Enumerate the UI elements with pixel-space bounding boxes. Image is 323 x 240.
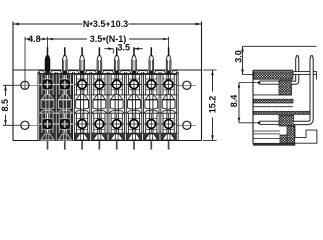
- dimension N*3.5+10.3: [13, 23, 83, 25]
- lower housing ledges: [253, 130, 280, 132]
- level 1 contact: [256, 81, 260, 84]
- pole 4 bottom pin: [98, 141, 100, 150]
- pole 7 top pin: [150, 47, 152, 56]
- dimension 4.8: [25, 38, 29, 40]
- lower hatch foot: [287, 126, 295, 143]
- pole 8 terminal details: [162, 75, 164, 95]
- pole 5 bottom pin: [116, 141, 118, 150]
- pole 5 top pin: [116, 47, 118, 56]
- pole 6 top pin: [133, 47, 135, 56]
- pole 3 top pin: [81, 47, 83, 56]
- pole 1 dark body fill: [39, 75, 56, 141]
- pole 6 bottom pin: [133, 141, 135, 150]
- dimension 15.2: [203, 69, 217, 71]
- pole 8 top pin: [168, 47, 170, 56]
- mounting hole bottom-right: [183, 121, 191, 129]
- pole 2 dark body fill: [56, 75, 73, 141]
- bottom right foot step: [294, 125, 296, 138]
- dimension 3.5: [104, 48, 113, 50]
- top right tab: [293, 72, 316, 75]
- level 2 pin bending up: [294, 56, 314, 125]
- pole 4 top pin: [98, 47, 100, 56]
- side view housing body: [252, 70, 254, 143]
- pole 2 bottom pin: [64, 141, 66, 150]
- pole 4 terminal details: [93, 75, 95, 95]
- pole 8 bottom pin: [168, 141, 170, 150]
- level 1 pin bending up: [292, 56, 299, 85]
- svg-text:4.8: 4.8: [28, 34, 41, 44]
- dimension 8.4: [238, 83, 240, 123]
- svg-text:8.4: 8.4: [229, 95, 239, 108]
- pole 6 terminal details: [127, 75, 129, 95]
- pole 5 terminal details: [110, 75, 112, 95]
- svg-text:15.2: 15.2: [207, 96, 217, 114]
- level 1 clamp block: [279, 80, 292, 95]
- housing top profile: [39, 72, 177, 74]
- pole 1 bottom pin: [47, 141, 49, 150]
- pole 3 bottom pin: [81, 141, 83, 150]
- pole 7 bottom pin: [150, 141, 152, 150]
- pole separation walls: [38, 75, 40, 141]
- svg-text:3.0: 3.0: [234, 50, 244, 63]
- pole 3 terminal details: [76, 75, 78, 95]
- dimension 3.5*(N-1): [48, 38, 87, 40]
- front view housing outline: [12, 22, 14, 141]
- svg-text:N*3.5+10.3: N*3.5+10.3: [83, 19, 128, 31]
- pole 2 top pin: [64, 47, 66, 56]
- mounting hole bottom-left: [21, 121, 29, 129]
- mounting hole top-left: [21, 81, 29, 89]
- horizontal shelf lines of terminal rows: [39, 74, 177, 76]
- dimension 8.5: [3, 84, 21, 86]
- pole 1 top pin: [47, 47, 49, 56]
- level 2 clamp block: [279, 115, 294, 126]
- svg-text:3.5: 3.5: [117, 43, 130, 53]
- pole 2 terminal details: [58, 75, 60, 95]
- side view pin-top reference line: [243, 45, 317, 47]
- mounting hole centerlines: [14, 84, 37, 86]
- dimension 3.0: [242, 46, 244, 74]
- level 2 contact: [256, 121, 260, 124]
- mounting hole top-right: [183, 81, 191, 89]
- pole 1 terminal details: [41, 75, 43, 95]
- side view mid shelves: [253, 94, 291, 96]
- pole 7 terminal details: [145, 75, 147, 95]
- svg-text:8.5: 8.5: [0, 99, 10, 112]
- extension lines: [24, 37, 26, 89]
